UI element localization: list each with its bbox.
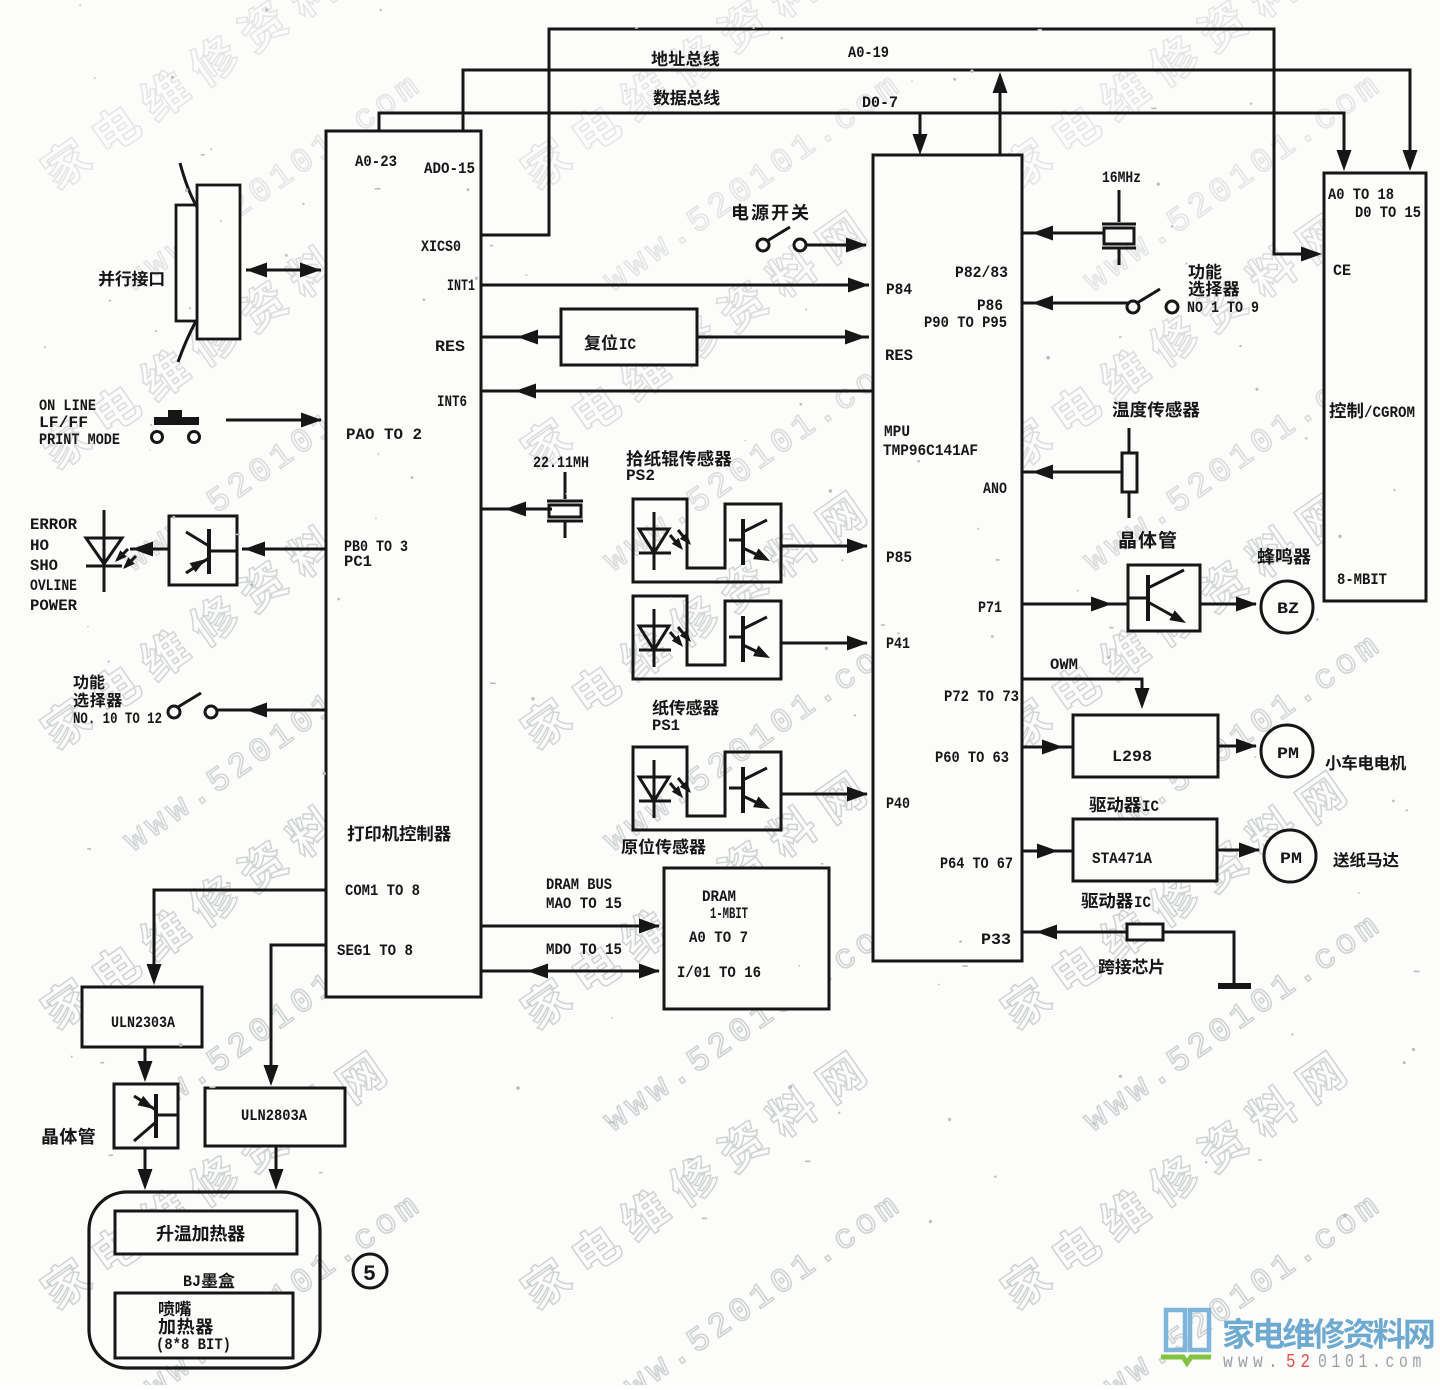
svg-text:5: 5 (363, 1262, 376, 1287)
svg-text:ULN2303A: ULN2303A (111, 1014, 175, 1032)
svg-text:HO: HO (30, 537, 49, 555)
svg-text:PC1: PC1 (344, 553, 372, 571)
svg-text:IC: IC (1142, 798, 1159, 816)
svg-text:DRAM BUS: DRAM BUS (546, 876, 612, 894)
svg-text:/CGROM: /CGROM (1364, 404, 1415, 422)
svg-text:COM1 TO 8: COM1 TO 8 (345, 882, 420, 900)
svg-text:D0 TO 15: D0 TO 15 (1355, 204, 1421, 222)
svg-text:P40: P40 (886, 795, 910, 813)
svg-text:ULN2803A: ULN2803A (241, 1107, 307, 1125)
svg-text:A0 TO 18: A0 TO 18 (1328, 186, 1394, 204)
svg-text:PS2: PS2 (626, 467, 655, 485)
svg-text:A0-19: A0-19 (848, 44, 889, 62)
svg-text:POWER: POWER (30, 597, 77, 615)
svg-text:P72 TO 73: P72 TO 73 (944, 688, 1019, 706)
svg-text:0101.com: 0101.com (1318, 1351, 1426, 1373)
svg-text:P86: P86 (977, 297, 1003, 315)
svg-text:P33: P33 (981, 931, 1011, 949)
svg-text:1-MBIT: 1-MBIT (710, 905, 748, 923)
svg-text:22.11MH: 22.11MH (533, 454, 589, 472)
svg-text:52: 52 (1286, 1351, 1315, 1373)
svg-text:www.: www. (1223, 1351, 1283, 1373)
svg-text:BJ: BJ (183, 1273, 201, 1291)
svg-text:CE: CE (1333, 262, 1351, 280)
svg-text:INT1: INT1 (447, 277, 475, 295)
svg-text:ERROR: ERROR (30, 516, 77, 534)
svg-text:16MHz: 16MHz (1102, 169, 1141, 187)
svg-text:XICS0: XICS0 (421, 238, 461, 256)
svg-text:NO. 10 TO 12: NO. 10 TO 12 (73, 710, 162, 728)
svg-text:(8*8 BIT): (8*8 BIT) (156, 1336, 231, 1354)
svg-text:DRAM: DRAM (702, 888, 736, 906)
svg-text:D0-7: D0-7 (862, 94, 898, 112)
svg-text:MDO TO 15: MDO TO 15 (546, 941, 622, 959)
svg-text:8-MBIT: 8-MBIT (1337, 571, 1387, 589)
svg-text:PS1: PS1 (652, 717, 680, 735)
svg-text:I/01 TO 16: I/01 TO 16 (677, 964, 761, 982)
svg-text:IC: IC (619, 336, 636, 354)
svg-text:OWM: OWM (1050, 656, 1078, 674)
svg-text:MAO TO 15: MAO TO 15 (546, 895, 622, 913)
svg-text:PAO TO 2: PAO TO 2 (346, 426, 422, 444)
svg-text:LF/FF: LF/FF (39, 414, 88, 432)
svg-text:P84: P84 (886, 281, 912, 299)
svg-text:RES: RES (435, 338, 465, 356)
svg-text:P82/83: P82/83 (955, 264, 1008, 282)
svg-text:P60 TO 63: P60 TO 63 (935, 749, 1009, 767)
svg-text:OVLINE: OVLINE (30, 577, 77, 595)
svg-text:PM: PM (1277, 745, 1299, 763)
svg-text:A0 TO 7: A0 TO 7 (689, 929, 748, 947)
svg-text:P64 TO 67: P64 TO 67 (940, 855, 1013, 873)
svg-text:P90 TO P95: P90 TO P95 (924, 314, 1007, 332)
svg-text:STA471A: STA471A (1092, 850, 1152, 868)
svg-text:ADO-15: ADO-15 (424, 160, 475, 178)
svg-text:ON LINE: ON LINE (39, 397, 96, 415)
svg-text:ANO: ANO (983, 480, 1007, 498)
svg-text:MPU: MPU (884, 423, 910, 441)
svg-text:SHO: SHO (30, 557, 58, 575)
svg-text:RES: RES (885, 347, 913, 365)
svg-text:PRINT MODE: PRINT MODE (39, 431, 120, 449)
svg-text:P41: P41 (886, 635, 910, 653)
svg-text:A0-23: A0-23 (355, 153, 397, 171)
svg-text:INT6: INT6 (437, 393, 467, 411)
svg-text:L298: L298 (1112, 748, 1152, 766)
svg-text:TMP96C141AF: TMP96C141AF (883, 442, 978, 460)
svg-text:P71: P71 (978, 599, 1002, 617)
svg-text:SEG1 TO 8: SEG1 TO 8 (337, 942, 413, 960)
svg-text:BZ: BZ (1277, 600, 1299, 618)
svg-text:NO 1 TO 9: NO 1 TO 9 (1187, 299, 1259, 317)
svg-text:P85: P85 (886, 549, 912, 567)
svg-text:PM: PM (1280, 850, 1302, 868)
svg-text:IC: IC (1134, 894, 1151, 912)
